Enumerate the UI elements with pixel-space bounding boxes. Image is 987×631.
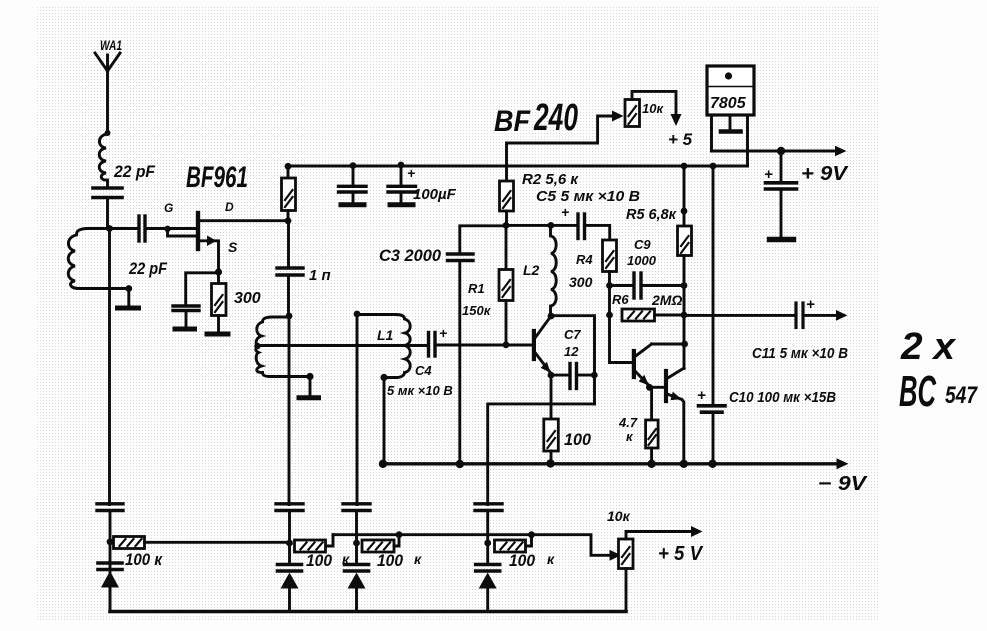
capacitor 22pF (coupling to gate) bbox=[110, 216, 168, 241]
wire R2 node to C5 bbox=[506, 224, 576, 227]
resistor R5 bbox=[678, 166, 692, 344]
arrow into 10k pot bbox=[610, 550, 622, 561]
node tank2 bottom bbox=[306, 373, 313, 380]
node L1 top bbox=[354, 311, 361, 318]
svg-text:R4: R4 bbox=[576, 252, 593, 267]
ground (9V filter cap) bbox=[770, 237, 794, 242]
node Q2 collector rail bbox=[681, 341, 688, 348]
node bus chain3 bbox=[396, 531, 403, 538]
svg-text:BC: BC bbox=[899, 367, 937, 416]
node rail-right branch bbox=[710, 163, 717, 170]
svg-text:C10 100 мк ×15В: C10 100 мк ×15В bbox=[729, 390, 836, 406]
ground (source bypass cap) bbox=[175, 327, 195, 332]
svg-text:2 x: 2 x bbox=[900, 326, 957, 368]
capacitor C11 bbox=[796, 303, 837, 328]
node rail left end bbox=[379, 460, 387, 468]
svg-text:100: 100 bbox=[509, 552, 536, 570]
arrow +9V bbox=[835, 146, 847, 156]
wire 10k pot bottom to ground rail bbox=[625, 569, 628, 612]
node chain4 resistor tap bbox=[484, 540, 491, 547]
resistor 10k (bottom pot) bbox=[619, 539, 634, 569]
svg-text:+: + bbox=[697, 387, 706, 404]
node rail-bypass cap bbox=[350, 162, 357, 169]
node C9 right bbox=[681, 282, 688, 289]
capacitor C3 bbox=[448, 254, 474, 464]
wire left column bottom bbox=[109, 564, 112, 612]
node base Q1 / R1 bottom bbox=[503, 341, 510, 348]
node Q1 emitter bbox=[548, 372, 555, 379]
node chain1 resistor tap bbox=[107, 538, 114, 545]
svg-text:4.7: 4.7 bbox=[618, 415, 638, 430]
node tank bottom bbox=[125, 285, 132, 292]
svg-text:547: 547 bbox=[945, 382, 978, 409]
svg-text:C7: C7 bbox=[564, 327, 581, 342]
transistor U1 BF961 channel bar bbox=[196, 213, 200, 249]
svg-text:+ 5: + 5 bbox=[668, 130, 693, 149]
wire bottom rail bbox=[110, 610, 626, 614]
wire Q2 collector bbox=[652, 343, 684, 346]
wire output C11 line bbox=[684, 314, 794, 317]
resistor 10k (top trimmer) bbox=[625, 100, 640, 127]
svg-text:L1: L1 bbox=[377, 327, 394, 343]
node R4/C9 left bbox=[606, 282, 613, 289]
capacitor 9V filter bbox=[766, 151, 797, 237]
capacitor 1n bbox=[277, 268, 303, 316]
ground (100uF) bbox=[390, 202, 413, 207]
svg-text:BF961: BF961 bbox=[186, 161, 248, 194]
svg-text:10к: 10к bbox=[607, 508, 631, 524]
wire gate G2 bbox=[168, 229, 197, 237]
node source junction bbox=[215, 268, 222, 275]
node 1n bottom / tank2 top bbox=[286, 313, 293, 320]
resistor 100k (4) bbox=[495, 535, 532, 552]
svg-text:100: 100 bbox=[306, 552, 333, 570]
svg-text:100: 100 bbox=[377, 552, 404, 570]
wire drain node down bbox=[287, 221, 290, 266]
ground (7805 center pin) bbox=[721, 115, 741, 132]
ground (tank coil) bbox=[118, 289, 139, 309]
svg-text:C5 5 мк ×10 В: C5 5 мк ×10 В bbox=[536, 189, 640, 205]
svg-text:300: 300 bbox=[234, 290, 261, 307]
node Q1 collector / L2 bottom bbox=[548, 313, 555, 320]
wire right column bbox=[712, 166, 715, 404]
regulator U2 7805 bbox=[707, 66, 754, 166]
wire source with arrow bbox=[200, 236, 219, 273]
svg-text:WA1: WA1 bbox=[100, 37, 122, 53]
wire gate G1 bbox=[168, 227, 197, 230]
wire C4 loop down bbox=[383, 378, 386, 464]
wire chain1 to chain2 bbox=[145, 541, 290, 544]
arrow output bbox=[836, 310, 848, 321]
svg-text:+: + bbox=[806, 296, 815, 313]
node C3 line to -9V rail bbox=[456, 460, 464, 468]
svg-text:C4: C4 bbox=[415, 363, 432, 378]
svg-text:R5 6,8к: R5 6,8к bbox=[626, 207, 677, 223]
svg-text:10к: 10к bbox=[642, 101, 664, 116]
ground (rail bypass cap) bbox=[341, 202, 364, 207]
svg-text:+ 9V: + 9V bbox=[801, 163, 849, 185]
inductor L1 bbox=[384, 315, 410, 378]
diode VD3 varactor bbox=[345, 565, 369, 612]
wire tank coil bottom bbox=[78, 287, 129, 290]
svg-text:G: G bbox=[164, 201, 173, 215]
svg-text:− 9V: − 9V bbox=[818, 473, 868, 495]
svg-text:2MΩ: 2MΩ bbox=[651, 292, 682, 308]
node A (tank top) bbox=[106, 225, 113, 232]
inductor L-ant (series antenna coil) bbox=[99, 134, 107, 186]
node 9V cap junction bbox=[777, 147, 785, 155]
node emitter resistor to rail bbox=[546, 459, 554, 467]
capacitor source bypass bbox=[173, 306, 199, 327]
arrow +5 down bbox=[671, 114, 682, 126]
svg-text:+: + bbox=[439, 325, 447, 341]
resistor 100k (3) bbox=[362, 535, 399, 552]
wire collector loop top bbox=[551, 316, 595, 404]
arrow +5V bbox=[691, 526, 703, 537]
node L2 top bbox=[548, 222, 555, 229]
inductor L2 bbox=[551, 226, 557, 316]
svg-text:+: + bbox=[764, 166, 773, 183]
capacitor C4 bbox=[429, 333, 534, 357]
wire L1 top link bbox=[357, 313, 396, 316]
node gate junction bbox=[164, 226, 170, 232]
capacitor varactor-chain 2 top bbox=[276, 504, 303, 564]
svg-text:150к: 150к bbox=[462, 303, 492, 318]
svg-text:7805: 7805 bbox=[710, 95, 747, 112]
wire top supply rail bbox=[288, 165, 748, 168]
svg-text:к: к bbox=[547, 551, 555, 567]
wire left rail down from node A bbox=[108, 229, 111, 505]
node tap of tank2 bbox=[254, 343, 260, 349]
resistor R-drain bbox=[282, 166, 296, 221]
node R5 mid dot bbox=[681, 208, 688, 215]
ground (300 resistor) bbox=[207, 332, 228, 337]
wire +9V line bbox=[712, 150, 837, 153]
resistor 100k (1) bbox=[114, 537, 145, 549]
wire L1 column down (to varactor 3) bbox=[356, 314, 359, 505]
node drain junction bbox=[285, 217, 292, 224]
node R6 left bbox=[606, 312, 613, 319]
capacitor C10 bbox=[699, 406, 726, 464]
svg-text:100: 100 bbox=[564, 431, 592, 449]
resistor 100k (2) bbox=[295, 535, 334, 552]
node C7 right bbox=[591, 372, 598, 379]
capacitor C5 bbox=[578, 214, 610, 240]
svg-text:+ 5 V: + 5 V bbox=[658, 543, 704, 565]
diode VD4 varactor bbox=[476, 565, 500, 612]
wire Q2 emitter to Q3 base bbox=[649, 386, 664, 389]
capacitor bypass (rail) bbox=[339, 166, 367, 203]
node rail right branch bbox=[708, 460, 716, 468]
svg-text:D: D bbox=[225, 200, 234, 214]
capacitor varactor-chain 4 top bbox=[475, 504, 502, 564]
diode VD2 varactor bbox=[278, 565, 302, 612]
wire R6 node down to Q2 base bbox=[610, 315, 633, 363]
transistor Q3 BC547 bbox=[666, 368, 684, 464]
capacitor C9 bbox=[610, 273, 685, 298]
wire tap bus to C4 bbox=[258, 344, 428, 347]
svg-text:S: S bbox=[228, 239, 238, 255]
capacitor 100uF bbox=[388, 165, 416, 203]
antenna WA1 bbox=[95, 53, 120, 133]
transistor Q1 BC547 bbox=[534, 316, 551, 375]
capacitor varactor-chain 1 top bbox=[97, 504, 123, 564]
node rail-100uF bbox=[398, 162, 405, 169]
svg-text:+: + bbox=[561, 204, 569, 220]
svg-text:R1: R1 bbox=[468, 281, 485, 296]
node 4.7k to rail bbox=[647, 460, 655, 468]
svg-text:240: 240 bbox=[533, 97, 578, 139]
svg-text:12: 12 bbox=[564, 344, 579, 359]
wire R2 node to C3 branch bbox=[460, 226, 506, 252]
ground (tank2) bbox=[299, 377, 319, 398]
arrow -9V bbox=[837, 458, 849, 469]
resistor 4.7k bbox=[646, 387, 659, 463]
resistor R6 bbox=[622, 309, 684, 321]
svg-text:300: 300 bbox=[569, 274, 593, 290]
diode VD1 varactor bbox=[98, 563, 122, 612]
node antenna-coil junction bbox=[105, 130, 111, 136]
svg-text:100µF: 100µF bbox=[413, 186, 457, 203]
node chain2 resistor tap bbox=[286, 540, 293, 547]
wire collector Q3 link bbox=[683, 344, 686, 369]
svg-text:5 мк ×10 В: 5 мк ×10 В bbox=[387, 383, 453, 398]
wire drain bbox=[199, 219, 288, 222]
svg-text:100 к: 100 к bbox=[125, 551, 163, 569]
node Q3 emitter to rail bbox=[680, 460, 688, 468]
svg-text:C9: C9 bbox=[634, 237, 651, 252]
svg-text:к: к bbox=[414, 551, 422, 567]
node R2 bottom bbox=[503, 222, 510, 229]
svg-text:22 pF: 22 pF bbox=[113, 162, 155, 181]
wire tuning bus bbox=[333, 535, 611, 556]
node bus chain4 bbox=[528, 531, 535, 538]
node rail-drain resistor bbox=[285, 163, 292, 170]
node Q2 emitter bbox=[646, 384, 653, 391]
inductor L-tank2 (tapped coil) bbox=[256, 317, 310, 377]
resistor 100 (Q1 emitter) bbox=[544, 375, 559, 463]
wire source to bypass cap bbox=[186, 273, 219, 304]
capacitor C7 bbox=[551, 364, 595, 389]
wire 10k pot top to +5V bbox=[626, 532, 692, 540]
node R6 right bbox=[681, 312, 688, 319]
svg-text:1000: 1000 bbox=[627, 253, 657, 268]
resistor R1 bbox=[499, 225, 513, 345]
node rail-R5 branch bbox=[681, 163, 688, 170]
wire mid vertical (to varactor 2) bbox=[288, 316, 291, 505]
wire BF240 pointer line bbox=[507, 116, 615, 166]
resistor 300 (source) bbox=[212, 272, 227, 332]
wire feedback to varactor bus bbox=[488, 404, 595, 505]
node chain3 resistor tap bbox=[353, 540, 360, 547]
capacitor varactor-chain 3 top bbox=[343, 504, 370, 564]
svg-text:C3 2000: C3 2000 bbox=[379, 246, 442, 265]
resistor R4 bbox=[603, 240, 617, 315]
inductor L-tank (antenna tank coil) bbox=[68, 229, 109, 289]
svg-text:к: к bbox=[342, 551, 350, 567]
resistor R2 bbox=[500, 166, 514, 225]
node C4 bottom loop bbox=[380, 374, 387, 381]
svg-text:BF: BF bbox=[494, 105, 531, 138]
wire 10k top to +5 arrow bbox=[632, 91, 676, 116]
svg-text:+: + bbox=[407, 165, 415, 181]
wire -9V rail bbox=[383, 462, 838, 465]
arrow into 10k top bbox=[612, 111, 624, 122]
svg-text:C11 5 мк ×10 В: C11 5 мк ×10 В bbox=[752, 346, 848, 362]
svg-text:22 pF: 22 pF bbox=[128, 259, 167, 278]
svg-text:R2 5,6 к: R2 5,6 к bbox=[522, 172, 579, 188]
capacitor 22pF (antenna series) bbox=[93, 188, 122, 229]
svg-text:L2: L2 bbox=[523, 262, 540, 278]
transistor Q2 BC547 bbox=[634, 344, 652, 386]
svg-text:1 п: 1 п bbox=[309, 267, 331, 284]
svg-text:R6: R6 bbox=[612, 292, 629, 307]
